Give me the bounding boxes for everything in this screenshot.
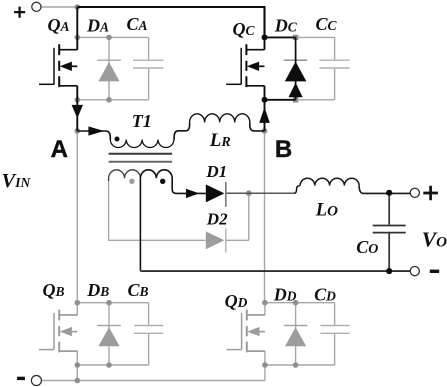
svg-text:DA: DA [86, 16, 109, 36]
svg-text:D2: D2 [206, 209, 228, 228]
svg-text:DB: DB [86, 280, 109, 300]
svg-text:QB: QB [43, 280, 65, 300]
svg-text:T1: T1 [132, 111, 152, 131]
svg-text:CD: CD [314, 284, 336, 304]
svg-text:CO: CO [356, 237, 378, 257]
svg-text:CA: CA [127, 14, 148, 34]
svg-text:QD: QD [225, 291, 248, 311]
svg-text:A: A [51, 136, 68, 163]
svg-text:VO: VO [422, 228, 447, 252]
svg-text:DC: DC [274, 15, 298, 35]
svg-text:VIN: VIN [2, 170, 32, 192]
svg-text:DD: DD [273, 284, 297, 304]
svg-text:CB: CB [128, 280, 149, 300]
svg-text:D1: D1 [205, 162, 227, 181]
svg-text:LR: LR [209, 130, 231, 151]
svg-text:CC: CC [316, 14, 338, 34]
svg-text:QA: QA [48, 15, 70, 35]
svg-text:LO: LO [315, 201, 338, 221]
svg-text:B: B [275, 136, 292, 163]
svg-text:QC: QC [233, 19, 256, 39]
